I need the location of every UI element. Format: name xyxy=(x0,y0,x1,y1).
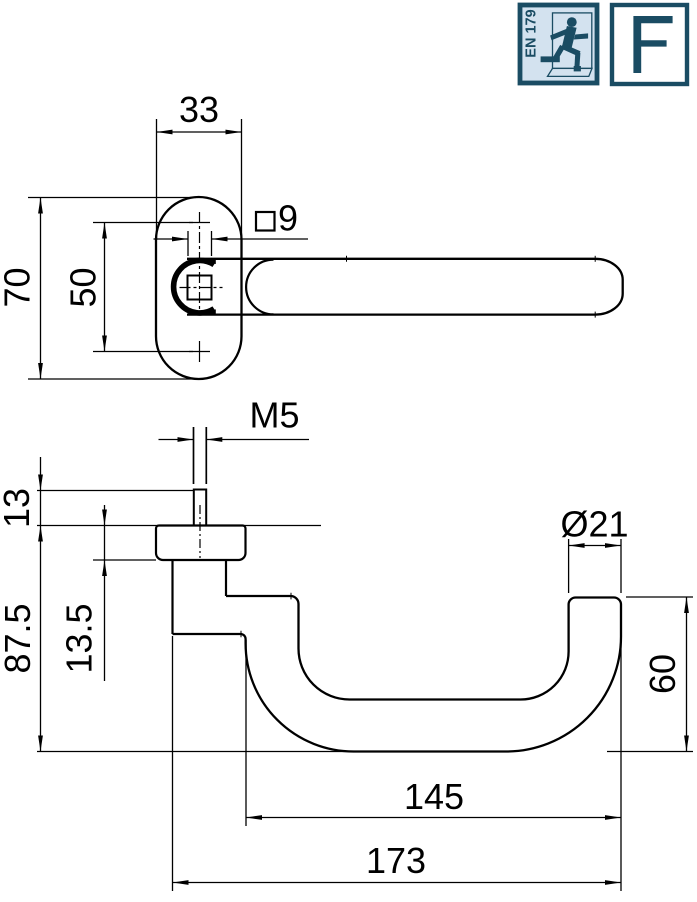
svg-text:87.5: 87.5 xyxy=(0,603,38,673)
extension line 60 top xyxy=(626,596,693,598)
stud centerline xyxy=(199,505,201,558)
svg-text:33: 33 xyxy=(179,89,219,130)
lever bar top view xyxy=(187,259,623,315)
dimension line 145 xyxy=(246,817,621,819)
svg-text:M5: M5 xyxy=(249,395,299,436)
front foot xyxy=(553,45,565,60)
extension line 33 left xyxy=(156,119,158,240)
tangent tick at lower bump corner xyxy=(240,631,242,637)
extension line 60 bottom xyxy=(607,751,693,753)
F badge xyxy=(612,5,687,84)
EN 179 badge xyxy=(520,5,597,83)
dimension line 60 xyxy=(686,597,688,752)
square + screw centerline vertical xyxy=(199,212,201,311)
square 9 label xyxy=(256,212,275,231)
square 9 dimension leader xyxy=(154,238,189,240)
tangent ticks on lever end xyxy=(594,256,596,262)
extension line 50 bottom xyxy=(93,351,193,353)
dimension line 13.5 xyxy=(104,505,106,681)
svg-text:Ø21: Ø21 xyxy=(560,504,628,545)
extension line 173 left xyxy=(172,636,174,891)
svg-text:70: 70 xyxy=(0,267,38,307)
extension line 33 right xyxy=(241,119,243,239)
rosette outline (stadium) xyxy=(156,197,242,379)
extension line 70 top xyxy=(28,197,196,199)
square 9 extension ticks xyxy=(187,231,189,256)
neck side view right edge xyxy=(225,560,227,596)
neck thick arc xyxy=(174,261,214,313)
dimension line diameter 21 xyxy=(569,545,621,547)
svg-text:60: 60 xyxy=(642,654,683,694)
torso xyxy=(550,28,571,41)
extension lines diameter 21 xyxy=(568,539,570,593)
svg-text:13.5: 13.5 xyxy=(59,603,100,673)
extension line 13 top xyxy=(37,490,194,492)
extension line 70 bottom xyxy=(28,378,196,380)
front thigh xyxy=(575,52,581,66)
rosette cap side view xyxy=(156,526,246,561)
door floor strip xyxy=(548,68,593,76)
extension line 87.5 bottom xyxy=(37,751,352,753)
extension line cap top (shared 13/87.5/13.5) xyxy=(37,525,321,527)
extension line 13.5 bottom xyxy=(93,559,156,561)
neck-grip tangency arc xyxy=(246,260,273,315)
rear arm xyxy=(574,33,588,39)
screw cross bottom xyxy=(189,341,210,362)
dimension line 173 xyxy=(173,882,622,884)
extension line 145 left xyxy=(245,640,247,826)
tangent tick on lever top line xyxy=(346,256,348,262)
dimension line M5 xyxy=(159,439,194,441)
extension line right shared 145/173 xyxy=(620,640,622,891)
screw cross top xyxy=(189,222,210,224)
svg-text:EN 179: EN 179 xyxy=(524,9,540,57)
svg-text:9: 9 xyxy=(278,198,298,239)
svg-text:50: 50 xyxy=(63,267,104,307)
letter F xyxy=(633,16,672,73)
dimension line 13 / 87.5 xyxy=(40,457,42,752)
threaded stud M5 xyxy=(194,490,206,526)
rear thigh xyxy=(541,56,560,62)
dimension line 50 xyxy=(104,223,106,352)
svg-text:145: 145 xyxy=(404,776,464,817)
square centerline horizontal xyxy=(178,287,223,289)
svg-text:13: 13 xyxy=(0,488,37,528)
handle grip outline xyxy=(173,596,622,752)
running man xyxy=(541,17,589,71)
dimension line 33 xyxy=(157,131,242,133)
extension lines M5 xyxy=(193,427,195,484)
door frame xyxy=(553,13,592,69)
svg-text:173: 173 xyxy=(366,840,426,881)
front shin xyxy=(574,66,581,71)
neck side view left edge xyxy=(171,560,173,634)
tangent tick at grip step corner xyxy=(290,593,292,600)
front arm xyxy=(561,44,581,57)
spindle square hole xyxy=(188,276,212,300)
extension line 50 top xyxy=(93,222,193,224)
dimension line 70 xyxy=(40,198,42,380)
